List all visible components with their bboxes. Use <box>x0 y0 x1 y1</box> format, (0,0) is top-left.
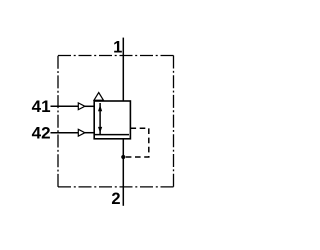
valve body V1 (regulator square) <box>94 101 130 139</box>
svg-text:41: 41 <box>32 97 51 116</box>
pilot feedback dashed line <box>123 128 149 157</box>
valve internal arrow (adjustment stem with arrowheads) <box>98 103 102 135</box>
pilot triangle 41 <box>78 103 85 110</box>
vent triangle on valve top <box>94 93 103 101</box>
wire: port 1 to valve top <box>122 38 124 101</box>
wire: pilot 41 line <box>51 105 95 107</box>
svg-text:1: 1 <box>113 38 122 56</box>
wire: pilot 42 line <box>51 132 95 134</box>
junction dot <box>121 155 125 159</box>
svg-text:2: 2 <box>111 190 120 208</box>
wire: valve bottom to port 2 <box>122 139 124 206</box>
valve internal seat line <box>95 134 130 136</box>
svg-text:42: 42 <box>32 124 51 143</box>
enclosure boundary (dash-dot assembly frame) <box>58 56 174 187</box>
pilot triangle 42 <box>78 129 85 136</box>
